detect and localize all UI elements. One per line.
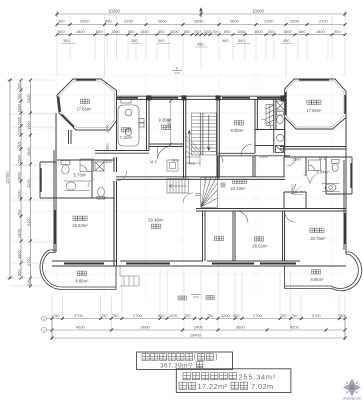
top dim row4 small [61, 44, 293, 48]
svg-text:790: 790 [16, 93, 21, 100]
right outer wall [338, 118, 352, 255]
svg-text:3100: 3100 [16, 228, 21, 237]
svg-text:600: 600 [16, 82, 21, 89]
right bath bay [338, 157, 352, 194]
stair winders lower-left [186, 135, 203, 166]
svg-text:500: 500 [16, 269, 21, 276]
main top wall double [117, 96, 285, 99]
svg-text:750: 750 [338, 313, 345, 318]
svg-text:1800: 1800 [76, 29, 85, 34]
svg-text:2600: 2600 [26, 147, 31, 156]
top dim row3 [57, 34, 345, 36]
entry steps bottom center [120, 266, 139, 286]
corner shower fan [292, 184, 303, 195]
svg-text:750: 750 [280, 313, 287, 318]
top dim row2 [57, 24, 345, 26]
interior vertical dim bedroom [170, 101, 172, 145]
svg-text:255.34m²: 255.34m² [239, 372, 277, 381]
left chain rotated small labels [16, 82, 31, 287]
bottom dim rowA [52, 318, 345, 320]
svg-text:1800: 1800 [316, 29, 325, 34]
svg-text:700: 700 [16, 209, 21, 216]
svg-text:300: 300 [283, 38, 290, 43]
center mid wall [116, 177, 285, 180]
stair A door arc [183, 193, 193, 203]
kitchen counter rounded [118, 98, 144, 147]
svg-text:2600: 2600 [194, 19, 203, 24]
svg-text:1000: 1000 [170, 29, 179, 34]
svg-text:550: 550 [128, 29, 135, 34]
stair shaft walls [217, 99, 219, 178]
svg-text:500: 500 [158, 313, 165, 318]
top dim row1 overall 10200+10200 [57, 11, 345, 17]
master bl walls [114, 157, 117, 266]
svg-text:1500: 1500 [283, 29, 292, 34]
svg-text:1500: 1500 [26, 121, 31, 130]
svg-text:850: 850 [299, 29, 306, 34]
svg-text:2700: 2700 [133, 313, 142, 318]
level mark top center [172, 67, 182, 73]
left hall walls [40, 160, 114, 198]
title box 2 [176, 369, 291, 393]
kitchen walls [95, 99, 149, 153]
bath door arc right [261, 119, 271, 129]
svg-text:2600: 2600 [158, 19, 167, 24]
octagon windows thick [58, 80, 96, 127]
svg-text:4200: 4200 [290, 324, 299, 329]
下层 / 上层 labels [178, 296, 186, 300]
svg-text:1: 1 [43, 316, 45, 321]
svg-text:20.78m²: 20.78m² [310, 236, 326, 241]
right mid bath shower [309, 160, 321, 171]
svg-text:1500: 1500 [111, 29, 120, 34]
bath1 toilet [61, 161, 70, 175]
master left label [73, 216, 87, 220]
svg-text:1800: 1800 [16, 103, 21, 112]
svg-text:750: 750 [184, 313, 191, 318]
duct square right [276, 146, 284, 153]
right unit walls [218, 99, 352, 208]
bath1 shower [80, 159, 94, 172]
svg-text:2700: 2700 [253, 313, 262, 318]
right bath top fixtures [276, 101, 285, 141]
svg-text:5.73m²: 5.73m² [73, 173, 87, 178]
svg-text:700: 700 [212, 29, 219, 34]
sunroom label [307, 100, 321, 104]
bottom dim rowC total [52, 315, 345, 340]
svg-text:750: 750 [112, 313, 119, 318]
staircase treads [192, 113, 217, 155]
svg-text:20.33m²: 20.33m² [230, 186, 246, 191]
svg-text:14700: 14700 [5, 172, 10, 184]
svg-text:3600: 3600 [236, 324, 245, 329]
bottom windows thick [64, 263, 296, 265]
svg-text:900: 900 [58, 29, 65, 34]
right doors arcs [211, 144, 296, 223]
svg-text:550: 550 [268, 29, 275, 34]
octagon dining bay left [57, 79, 117, 130]
svg-text:8.66m²: 8.66m² [75, 279, 89, 284]
svg-text:300: 300 [238, 38, 245, 43]
octagon door stub wall [69, 130, 72, 144]
svg-text:8.66m²: 8.66m² [310, 277, 324, 282]
stair B label [221, 183, 225, 187]
svg-text:5.84m²: 5.84m² [316, 170, 330, 175]
svg-text:50.46m²: 50.46m² [148, 218, 164, 223]
left chain horizontal extension lines [12, 80, 54, 286]
svg-text:2700: 2700 [312, 313, 321, 318]
left chain ticks [9, 79, 33, 288]
bottom dim rowB [52, 329, 345, 331]
lower winder stair B [195, 178, 217, 208]
svg-text:300: 300 [158, 38, 165, 43]
svg-text:9.35m²: 9.35m² [230, 128, 244, 133]
faint axis grid through plan [13, 70, 350, 300]
lower stair A treads [167, 179, 189, 194]
svg-text:10200: 10200 [108, 8, 120, 13]
bath1 sink [64, 181, 90, 191]
right wall window bands [345, 163, 351, 244]
bedroom 26 label [254, 237, 263, 241]
octagon sunroom bay right [285, 79, 346, 129]
hall-living door arc [117, 171, 128, 182]
svg-text:M-3: M-3 [150, 159, 157, 164]
svg-text:300: 300 [105, 143, 110, 150]
svg-text:1000: 1000 [259, 154, 268, 159]
staircase landing rect [192, 113, 217, 155]
sunroom windows thick [286, 80, 346, 115]
svg-text:2800: 2800 [230, 19, 239, 24]
top wall columns [146, 95, 286, 101]
kitchen label [121, 128, 130, 132]
bedroom door arc [158, 146, 172, 159]
svg-text:3100: 3100 [26, 179, 31, 188]
svg-text:1500: 1500 [16, 154, 21, 163]
left outer wall [40, 113, 56, 252]
balcony left label [77, 271, 86, 275]
svg-text:500: 500 [233, 313, 240, 318]
svg-text:600: 600 [26, 279, 31, 286]
balcony left [40, 250, 116, 290]
balcony right [285, 252, 362, 291]
left dim chains [7, 80, 31, 286]
svg-text:450: 450 [197, 41, 204, 46]
svg-text:2600: 2600 [16, 172, 21, 181]
grid extension lines bottom [52, 270, 345, 338]
dining room label [80, 99, 89, 103]
bottom wall left double [52, 261, 346, 266]
svg-text:2450: 2450 [80, 19, 89, 24]
top wall window bands [117, 97, 281, 99]
axis bubble 1 [41, 316, 52, 333]
svg-text:700: 700 [194, 29, 201, 34]
bedroom right label [234, 121, 243, 125]
svg-text:850: 850 [158, 29, 165, 34]
stair arrow [188, 115, 210, 164]
svg-text:1095: 1095 [16, 117, 21, 126]
svg-text:9.35m²: 9.35m² [158, 118, 172, 123]
svg-text:850: 850 [105, 19, 112, 24]
center axis arrow [200, 8, 203, 17]
svg-text:900: 900 [334, 29, 341, 34]
svg-text:17.22m²: 17.22m² [198, 382, 228, 391]
svg-text:26.02m²: 26.02m² [252, 244, 268, 249]
svg-text:850: 850 [96, 29, 103, 34]
svg-text:2100: 2100 [124, 19, 133, 24]
study label [214, 236, 223, 240]
svg-text:7.02m: 7.02m [251, 382, 274, 391]
sunroom lower double wall [280, 118, 346, 150]
balcony right label [311, 270, 320, 274]
closet right bedroom [266, 105, 274, 126]
svg-text:300: 300 [63, 38, 70, 43]
right lower rooms walls [196, 209, 346, 262]
svg-text:1: 1 [43, 328, 45, 333]
svg-text:850: 850 [224, 29, 231, 34]
svg-text:1500: 1500 [290, 19, 299, 24]
bath2 fixtures [95, 162, 105, 199]
svg-text:365: 365 [16, 142, 21, 149]
svg-text:750: 750 [291, 313, 298, 318]
svg-text:1225: 1225 [16, 126, 21, 135]
svg-text:750: 750 [53, 313, 60, 318]
hall cabinet [167, 160, 178, 171]
svg-text:2700: 2700 [74, 313, 83, 318]
svg-text:1800: 1800 [16, 250, 21, 259]
svg-text:20.63m²: 20.63m² [72, 223, 88, 228]
svg-text:1200: 1200 [169, 313, 178, 318]
svg-text:1550: 1550 [237, 29, 246, 34]
bath bay left [40, 162, 56, 198]
svg-text:750: 750 [207, 313, 214, 318]
svg-text:2400: 2400 [194, 324, 203, 329]
svg-text:2100: 2100 [105, 124, 110, 133]
grid extension lines top [57, 15, 345, 75]
watermark logo [343, 379, 361, 397]
svg-text:5100: 5100 [26, 217, 31, 226]
svg-text:4200: 4200 [76, 324, 85, 329]
double door arcs bath [304, 174, 317, 184]
svg-text:1500: 1500 [103, 159, 112, 164]
svg-text:450: 450 [222, 38, 229, 43]
svg-text:7.15m²: 7.15m² [119, 135, 133, 140]
svg-text:1500: 1500 [254, 29, 263, 34]
svg-text:2100: 2100 [264, 19, 273, 24]
right mid bath sink [322, 184, 340, 192]
svg-text:17.85m²: 17.85m² [306, 108, 322, 113]
master right label [310, 228, 324, 232]
svg-text:zhulong.com: zhulong.com [343, 397, 361, 400]
svg-text:M-1: M-1 [319, 156, 326, 161]
svg-text:2400: 2400 [26, 94, 31, 103]
svg-text:2700: 2700 [26, 257, 31, 266]
left wall window bands [41, 168, 55, 244]
bath1 door arc [88, 179, 94, 187]
svg-text:1200: 1200 [221, 313, 230, 318]
svg-text:5000: 5000 [141, 324, 150, 329]
svg-text:10200: 10200 [252, 8, 264, 13]
right mid bath toilet [332, 160, 340, 172]
title box 1 [137, 352, 233, 370]
svg-text:2700: 2700 [319, 19, 328, 24]
svg-text:750: 750 [101, 313, 108, 318]
svg-text:17.65m²: 17.65m² [76, 107, 92, 112]
svg-text:300: 300 [131, 38, 138, 43]
svg-text:1500: 1500 [292, 157, 301, 162]
svg-text:1200: 1200 [16, 190, 21, 199]
svg-text:900: 900 [58, 19, 65, 24]
dining2 label right [232, 179, 246, 183]
svg-text:M-2: M-2 [172, 158, 179, 163]
svg-text:1500: 1500 [140, 29, 149, 34]
bedroom left walls [149, 99, 186, 178]
svg-text:20400: 20400 [190, 333, 202, 338]
svg-text:550: 550 [184, 29, 191, 34]
